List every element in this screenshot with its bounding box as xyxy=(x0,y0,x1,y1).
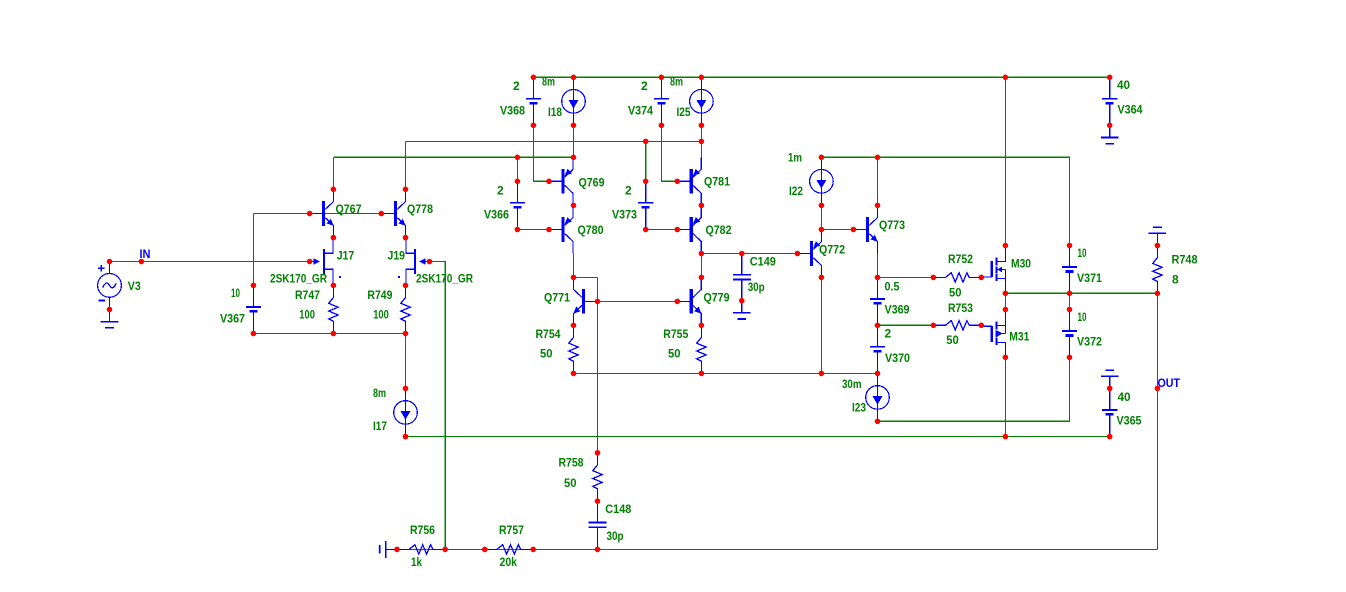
junction xyxy=(699,323,705,329)
svg-text:Q767: Q767 xyxy=(336,202,362,216)
junction xyxy=(595,450,601,456)
junction xyxy=(515,155,521,161)
ground xyxy=(741,301,743,313)
junction xyxy=(1107,434,1113,440)
resistor R748 xyxy=(1153,246,1162,294)
transistor M31 xyxy=(996,310,1005,326)
svg-text:40: 40 xyxy=(1117,78,1130,92)
junction xyxy=(875,371,881,377)
svg-text:Q779: Q779 xyxy=(704,291,730,305)
svg-text:50: 50 xyxy=(949,285,962,299)
transistor Q772 xyxy=(810,241,813,266)
junction xyxy=(643,139,649,145)
junction xyxy=(482,547,488,553)
voltage source V3 xyxy=(109,262,111,274)
wire Q767 collector riser xyxy=(332,157,334,189)
svg-text:2: 2 xyxy=(641,79,648,93)
wire feedback bottom rail xyxy=(397,548,1157,550)
svg-text:R755: R755 xyxy=(663,327,688,341)
transistor Q773 xyxy=(866,217,869,242)
junction xyxy=(875,275,881,281)
junction xyxy=(819,155,825,161)
svg-text:IN: IN xyxy=(140,247,151,261)
svg-text:2: 2 xyxy=(625,184,632,198)
svg-text:I: I xyxy=(378,542,381,556)
junction xyxy=(675,179,681,185)
svg-text:100: 100 xyxy=(373,308,389,322)
battery V366 xyxy=(516,181,518,202)
junction xyxy=(139,259,145,265)
wire Q772 collector drop xyxy=(820,277,822,373)
wire M30-M31 link xyxy=(1004,293,1006,309)
junction xyxy=(331,187,337,193)
battery V372 xyxy=(1069,310,1071,331)
svg-text:V368: V368 xyxy=(500,104,525,118)
capacitor C148 xyxy=(597,501,599,522)
svg-text:V3: V3 xyxy=(128,279,141,293)
power flag xyxy=(1109,376,1111,388)
junction xyxy=(819,203,825,209)
junction xyxy=(875,155,881,161)
svg-text:Q773: Q773 xyxy=(879,218,905,232)
junction xyxy=(659,123,665,129)
junction xyxy=(571,75,577,81)
battery V364 xyxy=(1109,77,1111,98)
junction xyxy=(571,323,577,329)
svg-text:R758: R758 xyxy=(559,456,584,470)
junction xyxy=(1003,75,1009,81)
junction xyxy=(546,227,552,233)
junction xyxy=(403,434,409,440)
resistor R747 xyxy=(329,285,338,333)
svg-text:30p: 30p xyxy=(748,280,765,294)
svg-text:50: 50 xyxy=(668,347,681,361)
wire V371-V372 link xyxy=(1069,293,1071,309)
junction xyxy=(931,275,937,281)
junction xyxy=(699,371,705,377)
junction xyxy=(331,283,337,289)
transistor Q779 xyxy=(690,289,693,314)
svg-text:C148: C148 xyxy=(605,502,631,516)
junction xyxy=(795,251,801,257)
junction xyxy=(442,547,448,553)
svg-text:20k: 20k xyxy=(500,555,518,569)
svg-text:Q771: Q771 xyxy=(544,291,570,305)
svg-text:V369: V369 xyxy=(885,303,910,317)
junction xyxy=(1155,291,1161,297)
junction xyxy=(1155,243,1161,249)
junction xyxy=(1155,386,1161,392)
transistor Q771 xyxy=(582,289,585,314)
svg-text:2SK170_GR: 2SK170_GR xyxy=(416,272,473,286)
battery V367 xyxy=(252,285,254,306)
junction xyxy=(379,211,385,217)
junction xyxy=(1003,243,1009,249)
svg-text:I22: I22 xyxy=(789,184,803,198)
junction xyxy=(675,227,681,233)
svg-text:0.5: 0.5 xyxy=(885,280,900,294)
junction xyxy=(699,123,705,129)
junction xyxy=(699,275,705,281)
resistor R757 xyxy=(485,545,533,554)
svg-text:R747: R747 xyxy=(295,288,320,302)
svg-text:50: 50 xyxy=(540,347,553,361)
junction xyxy=(675,299,681,305)
junction xyxy=(530,547,536,553)
battery V365 xyxy=(1109,388,1111,409)
junction xyxy=(1107,123,1113,129)
svg-text:30m: 30m xyxy=(842,377,862,391)
wire I17 riser xyxy=(405,334,407,389)
junction xyxy=(595,498,601,504)
junction xyxy=(739,251,745,257)
battery V373 xyxy=(645,181,647,202)
junction xyxy=(1107,386,1113,392)
wire V366 to Q780 base xyxy=(517,229,549,231)
wire rail I22/Q773 top xyxy=(821,157,1069,245)
wire J19 gate down to feedback xyxy=(430,262,446,550)
svg-text:100: 100 xyxy=(299,308,315,322)
svg-text:V374: V374 xyxy=(628,104,653,118)
junction xyxy=(931,323,937,329)
junction xyxy=(699,75,705,81)
svg-text:V366: V366 xyxy=(484,208,509,222)
wire Q773 emitter drop xyxy=(877,254,879,278)
svg-text:R754: R754 xyxy=(536,327,561,341)
svg-text:M30: M30 xyxy=(1011,257,1031,271)
junction xyxy=(403,386,409,392)
svg-text:Q780: Q780 xyxy=(578,223,604,237)
junction xyxy=(251,283,257,289)
svg-text:C149: C149 xyxy=(750,255,776,269)
wire rail to cascode bases upper xyxy=(406,140,702,142)
svg-text:I18: I18 xyxy=(548,105,562,119)
svg-text:10: 10 xyxy=(1078,310,1087,324)
wire V368 to Q769 base xyxy=(533,125,549,181)
transistor J19 xyxy=(414,249,416,274)
wire V374 to Q781 base xyxy=(661,125,677,181)
junction xyxy=(531,75,537,81)
svg-text:50: 50 xyxy=(564,476,577,490)
junction xyxy=(515,179,521,185)
transistor Q780 xyxy=(561,217,564,242)
wire V+ top rail xyxy=(533,76,1109,78)
junction xyxy=(595,299,601,305)
resistor R752 xyxy=(933,273,981,282)
svg-text:V365: V365 xyxy=(1117,414,1142,428)
junction xyxy=(699,139,705,145)
junction xyxy=(979,275,985,281)
svg-text:V367: V367 xyxy=(220,312,245,326)
junction xyxy=(643,227,649,233)
svg-text:Q781: Q781 xyxy=(704,175,730,189)
resistor R756 xyxy=(397,545,445,554)
wire Q782 collector to Q772 base xyxy=(701,253,797,255)
junction xyxy=(1067,307,1073,313)
transistor J17 xyxy=(323,249,325,274)
wire output mid rail xyxy=(1005,292,1157,294)
ground xyxy=(1109,125,1111,137)
svg-text:R757: R757 xyxy=(499,523,524,537)
junction xyxy=(739,298,745,304)
junction xyxy=(1067,355,1073,361)
junction xyxy=(699,251,705,257)
junction xyxy=(1107,75,1113,81)
wire rail to cascode bases lower xyxy=(333,156,573,158)
junction xyxy=(571,155,577,161)
svg-text:30p: 30p xyxy=(607,529,624,543)
svg-text:10: 10 xyxy=(231,286,240,300)
svg-text:2: 2 xyxy=(497,184,504,198)
resistor R755 xyxy=(697,325,706,373)
junction xyxy=(427,259,433,265)
battery V369 xyxy=(877,277,879,298)
resistor R749 xyxy=(401,285,410,333)
wire Q773 collector riser xyxy=(877,157,879,205)
junction xyxy=(1003,434,1009,440)
svg-text:J17: J17 xyxy=(337,249,355,263)
junction xyxy=(819,275,825,281)
junction xyxy=(659,75,665,81)
current source I25 xyxy=(700,77,702,125)
junction xyxy=(403,283,409,289)
junction xyxy=(699,203,705,209)
svg-text:V370: V370 xyxy=(885,351,910,365)
junction xyxy=(546,179,552,185)
wire I25 to Q781 emitter xyxy=(700,125,702,157)
svg-text:10: 10 xyxy=(1078,246,1087,260)
svg-text:R749: R749 xyxy=(367,288,392,302)
svg-text:R753: R753 xyxy=(948,301,973,315)
wire Q780 collector drop xyxy=(573,254,575,278)
transistor M30 xyxy=(996,246,1005,262)
junction xyxy=(251,331,257,337)
junction xyxy=(307,259,313,265)
resistor R758 xyxy=(593,453,602,501)
svg-text:R748: R748 xyxy=(1172,253,1198,267)
junction xyxy=(571,203,577,209)
resistor R753 xyxy=(933,321,981,330)
junction xyxy=(1067,291,1073,297)
battery V370 xyxy=(877,325,879,346)
svg-text:8: 8 xyxy=(1172,272,1179,286)
current source I18 xyxy=(573,77,575,125)
junction xyxy=(531,123,537,129)
power flag xyxy=(1156,233,1158,245)
svg-text:8m: 8m xyxy=(542,75,555,89)
svg-text:J19: J19 xyxy=(388,249,406,263)
svg-text:I17: I17 xyxy=(373,419,387,433)
junction xyxy=(403,187,409,193)
wire negative rail mid xyxy=(406,436,1110,438)
junction xyxy=(1003,291,1009,297)
capacitor C149 xyxy=(741,254,743,275)
svg-text:Q778: Q778 xyxy=(407,202,433,216)
wire I22 to Q772 emitter xyxy=(820,205,822,229)
svg-text:V372: V372 xyxy=(1077,335,1102,349)
junction xyxy=(331,235,337,241)
svg-text:R752: R752 xyxy=(948,252,973,266)
wire VAS node horizontal xyxy=(574,276,598,278)
svg-text:Q769: Q769 xyxy=(579,176,605,190)
junction xyxy=(1003,355,1009,361)
svg-text:V373: V373 xyxy=(612,208,637,222)
svg-text:8m: 8m xyxy=(373,386,386,400)
wire V366 top stub xyxy=(516,157,518,181)
battery V371 xyxy=(1069,246,1071,267)
svg-text:2SK170_GR: 2SK170_GR xyxy=(270,272,327,286)
junction xyxy=(643,179,649,185)
svg-text:V371: V371 xyxy=(1077,271,1102,285)
junction xyxy=(1003,307,1009,313)
junction xyxy=(979,323,985,329)
wire VAS node vertical xyxy=(597,277,599,452)
transistor Q781 xyxy=(690,169,693,194)
junction xyxy=(819,227,825,233)
battery V374 xyxy=(660,77,662,98)
junction xyxy=(875,203,881,209)
wire Q772 emitter to Q773 base xyxy=(821,229,853,231)
svg-text:OUT: OUT xyxy=(1158,376,1181,390)
wire node bias1 to R752 xyxy=(878,276,934,278)
wire V373 to Q782 base xyxy=(646,229,678,231)
current source I22 xyxy=(820,157,822,205)
input terminal I xyxy=(385,541,387,558)
wire M30 drain riser xyxy=(1004,77,1006,245)
junction xyxy=(107,307,113,313)
svg-text:2: 2 xyxy=(513,79,520,93)
wire I18 to Q769 emitter xyxy=(573,125,575,157)
junction xyxy=(571,371,577,377)
current source I17 xyxy=(405,388,407,436)
svg-text:1m: 1m xyxy=(788,150,802,164)
wire node bias2 to R753 xyxy=(878,324,934,326)
junction xyxy=(1067,243,1073,249)
svg-text:40: 40 xyxy=(1118,390,1131,404)
wire node OUT vertical xyxy=(1156,293,1158,549)
wire V373 top stub xyxy=(645,141,647,181)
wire I23 return rail xyxy=(878,357,1070,421)
transistor Q782 xyxy=(690,217,693,242)
junction xyxy=(819,371,825,377)
wire Q782-Q779 link xyxy=(700,254,702,278)
ground xyxy=(109,310,111,322)
junction xyxy=(307,211,313,217)
svg-text:I25: I25 xyxy=(677,105,691,119)
svg-text:Q772: Q772 xyxy=(819,243,845,257)
wire Q778 collector riser xyxy=(405,141,407,189)
junction xyxy=(107,259,113,265)
svg-text:8m: 8m xyxy=(670,75,683,89)
transistor Q767 xyxy=(322,201,325,226)
junction xyxy=(851,227,857,233)
svg-text:V364: V364 xyxy=(1118,103,1143,117)
svg-text:Q782: Q782 xyxy=(706,223,732,237)
svg-text:I23: I23 xyxy=(852,401,866,415)
current source I23 xyxy=(877,373,879,421)
transistor Q769 xyxy=(561,169,564,194)
svg-text:M31: M31 xyxy=(1009,330,1029,344)
junction xyxy=(403,235,409,241)
transistor Q778 xyxy=(394,201,397,226)
wire emitter degeneration rail xyxy=(574,372,878,374)
svg-text:R756: R756 xyxy=(410,523,435,537)
junction xyxy=(875,419,881,425)
junction xyxy=(403,331,409,337)
wire source rail J17/J19 xyxy=(253,333,405,335)
wire V367 riser xyxy=(252,214,254,286)
junction xyxy=(394,547,400,553)
junction xyxy=(595,547,601,553)
resistor R754 xyxy=(569,325,578,373)
junction xyxy=(571,123,577,129)
wire Q771-Q779 base xyxy=(598,300,678,302)
junction xyxy=(571,275,577,281)
svg-text:2: 2 xyxy=(885,326,892,340)
svg-text:50: 50 xyxy=(946,333,959,347)
battery V368 xyxy=(532,77,534,98)
wire M31 drop xyxy=(1004,357,1006,436)
svg-text:1k: 1k xyxy=(411,555,422,569)
junction xyxy=(515,227,521,233)
wire node IN xyxy=(110,261,310,263)
wire Q767-Q778 base bus xyxy=(253,213,381,215)
junction xyxy=(331,331,337,337)
junction xyxy=(875,323,881,329)
